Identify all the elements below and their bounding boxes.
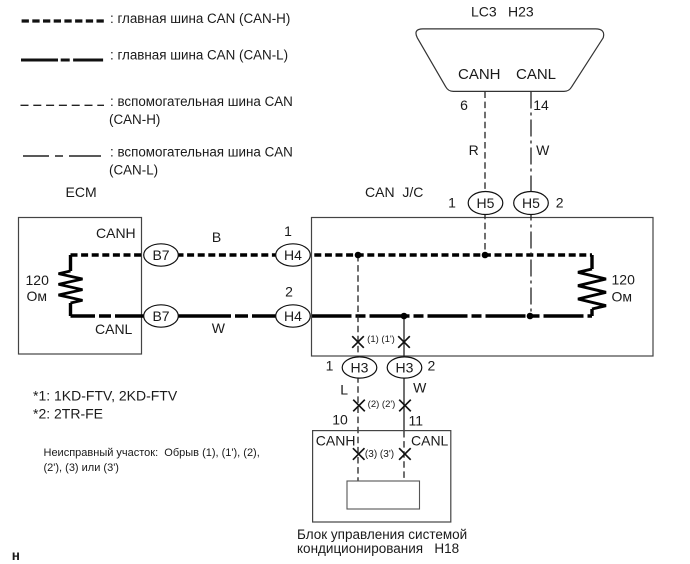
svg-text:H5: H5 <box>477 195 495 211</box>
svg-text:14: 14 <box>533 97 549 113</box>
junction dot CANL / aux branch <box>401 313 408 320</box>
wire W (LC3 CANL to H5) thin dash-dot <box>530 92 532 317</box>
svg-text:R: R <box>469 142 479 158</box>
svg-text:CANL: CANL <box>95 321 133 337</box>
A/C control unit box <box>313 431 451 522</box>
connector LC3 (H23) trapezoid <box>416 29 604 92</box>
svg-text:H5: H5 <box>522 195 540 211</box>
break point X (3') <box>399 448 411 460</box>
svg-text:2: 2 <box>285 284 293 300</box>
svg-text:CANH: CANH <box>96 225 136 241</box>
svg-text:CANL: CANL <box>411 432 449 448</box>
svg-text:: вспомогательная шина CAN: : вспомогательная шина CAN <box>110 145 293 160</box>
wire CANL main bus (ECM through CAN J/C) thick dash-dot <box>71 314 277 317</box>
svg-text:Блок управления системой: Блок управления системой <box>297 527 467 542</box>
svg-text:: главная шина CAN (CAN-L): : главная шина CAN (CAN-L) <box>110 48 288 63</box>
svg-text:11: 11 <box>409 412 424 428</box>
connector pin H5 (CANH) <box>468 192 503 215</box>
svg-text:1: 1 <box>284 223 292 239</box>
svg-text:CANL: CANL <box>516 66 556 83</box>
svg-text:B: B <box>212 229 221 245</box>
svg-text:CAN J/C: CAN J/C <box>365 184 423 200</box>
svg-text:6: 6 <box>460 97 468 113</box>
svg-text:CANH: CANH <box>458 66 501 83</box>
value label 120 Ом (J/C) <box>612 272 636 305</box>
wire aux CANL branch (J/C to A/C unit) upper <box>403 316 405 431</box>
svg-text:LC3: LC3 <box>471 4 497 20</box>
svg-text:кондиционирования Н18: кондиционирования Н18 <box>297 541 459 556</box>
wire R (LC3 CANH to H5) thin dashed <box>484 92 486 256</box>
svg-text:H23: H23 <box>508 4 534 20</box>
svg-text:(3) (3'): (3) (3') <box>365 449 394 460</box>
svg-text:1: 1 <box>448 194 456 210</box>
CAN J/C box <box>312 218 654 357</box>
break point X (3) <box>353 448 365 460</box>
connector pin H4 (CANL) <box>276 305 311 327</box>
svg-text:(2'), (3) или (3'): (2'), (3) или (3') <box>44 462 119 474</box>
note: fault section <box>44 447 260 474</box>
connector pin B7 (CANL) <box>144 305 179 327</box>
svg-text:H3: H3 <box>396 359 414 375</box>
wire CANH main bus (ECM through CAN J/C) thick dashed <box>71 253 593 256</box>
svg-text:н: н <box>12 548 20 563</box>
label LC3 H23 <box>471 4 534 20</box>
svg-text:ECM: ECM <box>66 184 97 200</box>
svg-text:W: W <box>212 320 226 336</box>
junction dot CANL / H5-2 <box>527 313 534 320</box>
inner component rectangle (CAN transceiver in A/C unit) <box>347 481 420 509</box>
svg-text:: главная шина CAN (CAN-H): : главная шина CAN (CAN-H) <box>110 11 290 26</box>
svg-text:CANH: CANH <box>316 432 356 448</box>
svg-text:2: 2 <box>428 358 436 374</box>
connector pin H3 (CANL) <box>387 357 422 378</box>
legend label: auxiliary CAN bus (CAN-L) <box>109 145 293 178</box>
svg-text:120: 120 <box>612 272 636 288</box>
resistor R-J/C 120 Ом <box>578 255 606 316</box>
resistor R-ECM 120 Ом <box>59 255 83 316</box>
wire aux CANL branch inside A/C unit dashed <box>403 431 405 481</box>
svg-text:120: 120 <box>26 272 50 288</box>
connector pin H3 (CANH) <box>342 357 377 378</box>
svg-text:B7: B7 <box>152 247 169 263</box>
svg-text:H4: H4 <box>284 247 302 263</box>
svg-text:L: L <box>340 381 348 397</box>
wire aux CANH branch (J/C to A/C unit) thin dashed <box>357 255 359 481</box>
wire CANL main bus inside CAN J/C <box>312 314 593 317</box>
svg-text:: вспомогательная шина CAN: : вспомогательная шина CAN <box>110 94 293 109</box>
svg-text:W: W <box>536 142 550 158</box>
break point X (2') <box>399 400 411 412</box>
break point X (1') <box>398 336 410 348</box>
break point X (2) <box>353 400 365 412</box>
svg-text:(CAN-H): (CAN-H) <box>109 112 160 127</box>
svg-text:(2) (2'): (2) (2') <box>368 399 396 410</box>
svg-text:(CAN-L): (CAN-L) <box>109 163 158 178</box>
svg-text:Ом: Ом <box>612 288 633 304</box>
svg-text:10: 10 <box>332 412 348 428</box>
svg-text:1: 1 <box>326 358 334 374</box>
svg-text:B7: B7 <box>152 308 169 324</box>
legend line: main CAN bus (CAN-L) thick dash-dot <box>21 58 103 61</box>
svg-text:*2: 2TR-FE: *2: 2TR-FE <box>33 405 103 421</box>
legend line: auxiliary CAN bus (CAN-L) thin dash-dot <box>23 155 101 157</box>
svg-text:Неисправный участок: Обрыв (1: Неисправный участок: Обрыв (1), (1'), (2… <box>44 447 260 459</box>
svg-text:H3: H3 <box>351 359 369 375</box>
svg-text:*1: 1KD-FTV, 2KD-FTV: *1: 1KD-FTV, 2KD-FTV <box>33 387 178 403</box>
svg-text:2: 2 <box>556 194 564 210</box>
connector pin B7 (CANH) <box>144 244 179 266</box>
caption: A/C control unit H18 <box>297 527 467 556</box>
connector pin H5 (CANL) <box>514 192 549 215</box>
svg-text:H4: H4 <box>284 308 302 324</box>
value label 120 Ом (ECM) <box>26 272 50 304</box>
legend line: main CAN bus (CAN-H) thick dashed <box>22 19 104 22</box>
svg-text:Ом: Ом <box>27 288 48 304</box>
junction dot CANH / H5-1 <box>482 252 489 259</box>
legend line: auxiliary CAN bus (CAN-H) thin dashed <box>21 104 105 106</box>
svg-text:(1) (1'): (1) (1') <box>367 334 395 345</box>
break point X (1) <box>352 336 364 348</box>
legend label: auxiliary CAN bus (CAN-H) <box>109 94 293 127</box>
connector pin H4 (CANH) <box>276 244 311 266</box>
svg-text:W: W <box>413 379 427 395</box>
ECM box <box>19 218 142 355</box>
junction dot CANH / aux branch <box>355 252 362 259</box>
